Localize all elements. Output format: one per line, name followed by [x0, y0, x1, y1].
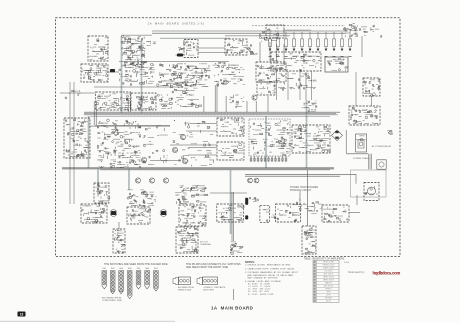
svg-text:MAY CHANGE BY SETTING.: MAY CHANGE BY SETTING.: [245, 276, 278, 279]
input selector dashed box: [266, 25, 284, 38]
muting relay cluster: [119, 63, 155, 86]
power primary vertical chain: [302, 226, 316, 254]
diode bridge D401-D404: [332, 130, 343, 141]
ripple filter cluster top-right: [343, 24, 358, 37]
capacitor C105 (electrolytic, filled): [110, 69, 115, 72]
transistor Q203: [141, 157, 146, 162]
page number badge 18: [18, 312, 26, 317]
pre-driver vertical chain (L): [113, 229, 125, 253]
svg-text:F+ 12.0V MUTE CONT.: F+ 12.0V MUTE CONT.: [245, 294, 274, 296]
svg-text:SIDE VIEW: SIDE VIEW: [203, 289, 214, 291]
output stage dashed block right: [179, 205, 206, 226]
table: sensitivity of amplifiers: [304, 257, 345, 302]
svg-text:TERMINAL: TERMINAL: [200, 243, 212, 246]
IC201 op-amp dashed block (L): [217, 118, 244, 136]
wire - long horizontal run to AC block 2: [245, 175, 340, 177]
wire - vertical stub x357 to AC block: [356, 195, 358, 205]
svg-text:1A MAIN BOARD: 1A MAIN BOARD: [211, 305, 253, 310]
IC301 system control box: [325, 57, 348, 72]
wire - horizontal to transformer: [346, 153, 368, 155]
wire - horizontal bus line 4: [62, 166, 334, 168]
wire - horizontal link y145: [170, 144, 217, 146]
power transistor Q405 (filled): [110, 210, 117, 217]
svg-text:1. UNLESS NOTED: RESISTANCE: 1. UNLESS NOTED: RESISTANCE IN OHM.: [245, 263, 291, 266]
phono input dashed block: [88, 36, 108, 61]
wire - vertical stub x204: [203, 96, 205, 112]
svg-text:PRE 1V: PRE 1V: [325, 289, 332, 291]
IC101 muting control cluster: [121, 35, 147, 67]
svg-text:PHONO 2.5mV: PHONO 2.5mV: [323, 265, 335, 267]
parts field under CN301: [268, 74, 316, 91]
svg-text:NOTES:: NOTES:: [245, 260, 255, 264]
svg-text:TAPE2 150mV: TAPE2 150mV: [323, 279, 335, 282]
phono EQ amplifier dashed block: [184, 40, 198, 58]
wire - vertical pair x215-217: [215, 85, 217, 112]
svg-text:AC POWER RELAY: AC POWER RELAY: [372, 145, 392, 148]
schematic sheet dashed border frame: [56, 18, 401, 257]
svg-text:ARE SEEN FROM THE FRONT SIDE: ARE SEEN FROM THE FRONT SIDE: [186, 266, 229, 269]
svg-text:PRIMARY CIRCUIT: PRIMARY CIRCUIT: [290, 189, 312, 192]
wire - vertical stub x247: [246, 101, 248, 112]
wire - gray trace vertical left column: [88, 116, 90, 168]
wire - gray horizontal trace left mid: [88, 125, 170, 127]
svg-text:PHONES: PHONES: [325, 298, 333, 300]
wire - vertical stub x268 mid: [267, 96, 269, 112]
wire - long horizontal run to AC block: [245, 173, 356, 175]
wire - gray trace vertical from muting block (right): [141, 40, 143, 113]
AC inlet dashed block with plug: [364, 183, 379, 201]
connector CN1 horizontal diagram: [173, 277, 194, 291]
pre-driver vertical chain (R): [176, 227, 198, 253]
transistor Q204: [172, 147, 177, 152]
wire - vertical drop to AC block: [355, 174, 357, 183]
svg-text:INPUT LEVEL: INPUT LEVEL: [323, 262, 334, 264]
wire - gray trace vertical power rail: [306, 100, 308, 168]
svg-text:WIRING SIDE: WIRING SIDE: [178, 289, 192, 291]
connector CN102 tall dashed block: [64, 118, 90, 158]
tone control stage cluster lower: [169, 85, 202, 108]
wire - vertical pair to bottom cluster: [232, 192, 234, 241]
wire - drops from CN301 to bias network: [277, 71, 312, 100]
wire - vertical stub x346 rectifier feed: [345, 130, 347, 153]
wire - horizontal link y72: [105, 71, 119, 73]
fuse block cluster: [293, 199, 307, 207]
preamp left channel cluster: [97, 119, 141, 168]
svg-text:S-1A: S-1A: [344, 261, 349, 264]
dashed bus line over resistor ladder: [252, 25, 345, 27]
parts group x249 y196: [249, 197, 258, 202]
flat amp dashed block R: [131, 93, 156, 110]
wire - horizontal bus line 5: [100, 169, 330, 171]
wire - horizontal link y212 right: [349, 212, 360, 214]
svg-text:2. CAPACITORS IN PF, OTHERS: 2. CAPACITORS IN PF, OTHERS IN UF VALUE.: [245, 268, 295, 271]
protection circuit dashed block: [363, 78, 380, 96]
parts group right of function switch: [248, 44, 258, 55]
wire - gray trace vertical output stage R: [128, 168, 130, 190]
wire - gray horizontal bus upper: [84, 114, 338, 116]
wire - vertical stub x362 from control: [361, 36, 363, 57]
power transistor Q406 (filled): [160, 210, 167, 217]
electrolytic capacitor C409 (filled): [245, 198, 248, 205]
wire - gray trace vertical mid: [265, 116, 267, 168]
capacitor group C102: [146, 41, 156, 46]
svg-text:18: 18: [20, 313, 24, 317]
buffer stage cluster: [157, 64, 184, 88]
driver stage parts field: [173, 120, 214, 166]
wire - vertical connect predriver L: [118, 222, 120, 229]
output stage cluster center upper: [127, 190, 156, 207]
wire - vertical drops from input selector: [260, 42, 284, 62]
filter amp cluster: [213, 62, 245, 86]
transistor Q408 relay driver: [254, 178, 259, 183]
wire - long horizontal y61 signal run: [119, 61, 229, 63]
wire - vertical from protection block: [371, 96, 373, 106]
svg-text:AUX 150mV: AUX 150mV: [324, 273, 334, 276]
transistor Q202: [182, 158, 187, 163]
tone control stage cluster upper: [170, 64, 200, 86]
wire - vertical stub x226: [225, 96, 227, 112]
bias network cluster: [302, 101, 317, 113]
resistor group R111: [176, 42, 185, 56]
power supply rectifier dashed block: [292, 125, 330, 153]
wire - horizontal bus line 6: [62, 168, 334, 170]
wire - top horizontal run 1 to system control: [152, 30, 346, 32]
electrolytic capacitor C410 (filled): [245, 215, 248, 219]
resistor ladder R301-R307 with connector pins: [268, 32, 351, 57]
speaker terminal dashed block (wide): [276, 204, 302, 222]
NOTES block: [245, 260, 299, 296]
capacitor C110 (filled): [177, 54, 183, 57]
bias dashed block output L: [94, 183, 110, 203]
wire - vertical connect predriver R: [185, 222, 187, 227]
power supply regulator dashed block: [81, 64, 108, 82]
transistor Q301 output L: [135, 178, 140, 183]
flat amp dashed block L: [96, 92, 131, 110]
relay RY401 box: [356, 134, 367, 152]
wire - horizontal bus line 2: [84, 113, 336, 115]
function switch dashed block: [225, 39, 247, 55]
svg-text:COMPONENT SIDE: COMPONENT SIDE: [102, 300, 122, 302]
balance control dashed block: [256, 62, 286, 82]
parts group top right corner of power section: [387, 131, 392, 135]
wire - vertical stub x300 low: [299, 190, 301, 205]
svg-text:TUNER 150mV: TUNER 150mV: [323, 268, 336, 270]
parts group x156 y94: [157, 94, 172, 109]
wire - top horizontal run 3: [225, 35, 290, 37]
wire - op-amp L input leads: [186, 124, 217, 132]
wire - vertical stub x256: [255, 101, 257, 112]
wire - horizontal link y87: [94, 86, 183, 88]
tone amp cluster: [184, 64, 210, 87]
svg-text:MAIN 1V: MAIN 1V: [325, 282, 333, 285]
output stage cluster right upper: [175, 186, 207, 205]
connector pin diagrams group: [102, 268, 159, 299]
wire - left spine vertical pair: [70, 82, 74, 204]
sparse parts column x143: [143, 126, 168, 165]
connector CN2 horizontal diagram: [197, 277, 226, 291]
speaker relay dashed block: [217, 204, 244, 222]
parts row right of ripple filter: [359, 25, 382, 37]
power transformer T401: [368, 154, 386, 169]
wire - horizontal bus line 3: [90, 115, 330, 117]
wire - gray trace vertical output stage L: [97, 168, 99, 194]
svg-text:AND REFERENCE VALUE OF EAC: AND REFERENCE VALUE OF EACH PART.: [245, 274, 294, 277]
bottom parts cluster x230: [230, 242, 243, 255]
wire - gray horizontal trace under selector: [160, 37, 230, 39]
AC power block outline: [351, 170, 387, 197]
power switch cluster: [305, 202, 323, 214]
svg-text:1A MAIN BOARD (NOTES 1-6): 1A MAIN BOARD (NOTES 1-6): [148, 21, 205, 25]
svg-text:THE SWITCHES ARE SEEN FROM THE: THE SWITCHES ARE SEEN FROM THE SOLDER SI…: [104, 263, 168, 266]
svg-text:3. VOLTAGES MEASURED AT NO: 3. VOLTAGES MEASURED AT NO SIGNAL INPUT: [245, 271, 299, 274]
wire - vertical from system control to switch box: [355, 72, 357, 106]
output stage dashed block center: [127, 207, 151, 224]
headphone jack dashed block: [260, 206, 270, 223]
svg-text:POWER TRANS: POWER TRANS: [353, 157, 370, 160]
wire - vertical stub x306 upper: [305, 72, 307, 100]
wire - horizontal link y160: [150, 160, 181, 162]
wire - gray trace vertical center-low: [230, 170, 232, 234]
wire - horizontal from muting block to title row: [122, 34, 153, 36]
wire - bus connection tick row: [122, 113, 260, 117]
wire - top horizontal run 2 to system control: [152, 32, 346, 34]
wire - links EQ to function switch: [198, 48, 225, 53]
voltage selector dashed block: [322, 205, 349, 222]
svg-text:hqdbdocs.com: hqdbdocs.com: [373, 271, 401, 276]
transistor Q303 output R: [163, 178, 168, 183]
wire - gray trace vertical from muting block (left): [121, 36, 123, 113]
wire - horizontal link y125: [95, 125, 170, 127]
wire - vertical power feed to primary chain: [307, 170, 309, 226]
IC401 driver dashed block with pin row: [249, 119, 291, 162]
transistor Q302 output L2: [149, 178, 154, 183]
wire - op-amp R input leads: [188, 148, 217, 156]
input selector cluster: [259, 28, 279, 42]
wire - vertical pair x94-96: [94, 101, 96, 125]
wire - gray horizontal bus lower: [62, 168, 334, 170]
svg-text:TABLE: SENSITIVITY OF AMPLIFIE: TABLE: SENSITIVITY OF AMPLIFIERS: [304, 257, 345, 260]
svg-text:Scanned by:: Scanned by:: [348, 270, 365, 274]
driver dashed block (L): [81, 204, 107, 223]
svg-text:CD 150mV: CD 150mV: [324, 271, 333, 273]
transistor Q201: [180, 134, 185, 139]
svg-text:AC IN: AC IN: [326, 300, 331, 303]
wire - fold mark above title block: [233, 289, 235, 300]
transistor Q205: [252, 95, 257, 100]
sparse parts near left frame edge: [65, 90, 80, 99]
wire - horizontal bus line 1: [84, 111, 340, 113]
svg-text:4. SIGNAL LEVEL AND VOLTAGE: 4. SIGNAL LEVEL AND VOLTAGE:: [245, 280, 282, 283]
volume control dashed block: [257, 82, 275, 95]
CN301 remote connector dashed block: [271, 52, 321, 72]
transistor Q407 relay driver: [248, 178, 253, 183]
wire - vertical pair x128-130: [128, 101, 130, 112]
wire - horizontal link y193: [210, 192, 247, 194]
svg-text:TAPE1 150mV: TAPE1 150mV: [323, 276, 335, 279]
IC202 op-amp dashed block (R): [217, 142, 244, 160]
wire - horizontal link y93 left edge: [60, 92, 95, 94]
loudness network cluster: [229, 95, 244, 108]
wire - gray horizontal trace above resistor ladder: [283, 29, 311, 31]
svg-text:REC 150mV: REC 150mV: [324, 286, 334, 288]
switch block dashed box right: [349, 106, 380, 125]
parts group x270 y213: [271, 215, 276, 219]
